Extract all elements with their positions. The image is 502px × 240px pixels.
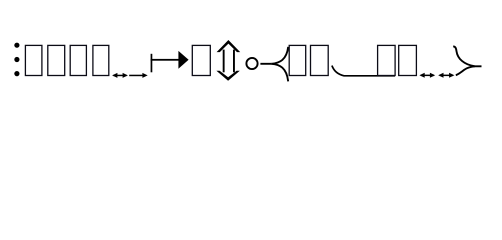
up-down outline arrow bbox=[216, 40, 240, 81]
arrow S2 (rightwards) bbox=[129, 73, 148, 78]
maps-to arrow bbox=[151, 51, 189, 72]
arrow S3 (left-right) bbox=[419, 73, 435, 78]
arrow S4 (left-right) bbox=[438, 73, 454, 78]
box B8 bbox=[378, 45, 396, 75]
box B4 bbox=[93, 45, 109, 75]
vertical ellipsis dots bbox=[14, 43, 19, 77]
merge fork bbox=[453, 46, 481, 75]
box B3 bbox=[70, 45, 86, 75]
box B1 bbox=[25, 45, 42, 75]
box B2 bbox=[48, 45, 65, 75]
box B6 bbox=[289, 45, 306, 75]
arrow S1 (left-right) bbox=[112, 73, 128, 78]
box B9 bbox=[399, 45, 417, 75]
smile connector bbox=[332, 66, 395, 76]
box B7 bbox=[311, 45, 329, 75]
split fork bbox=[260, 47, 288, 82]
box B5 bbox=[192, 45, 210, 75]
circle node bbox=[246, 58, 257, 69]
